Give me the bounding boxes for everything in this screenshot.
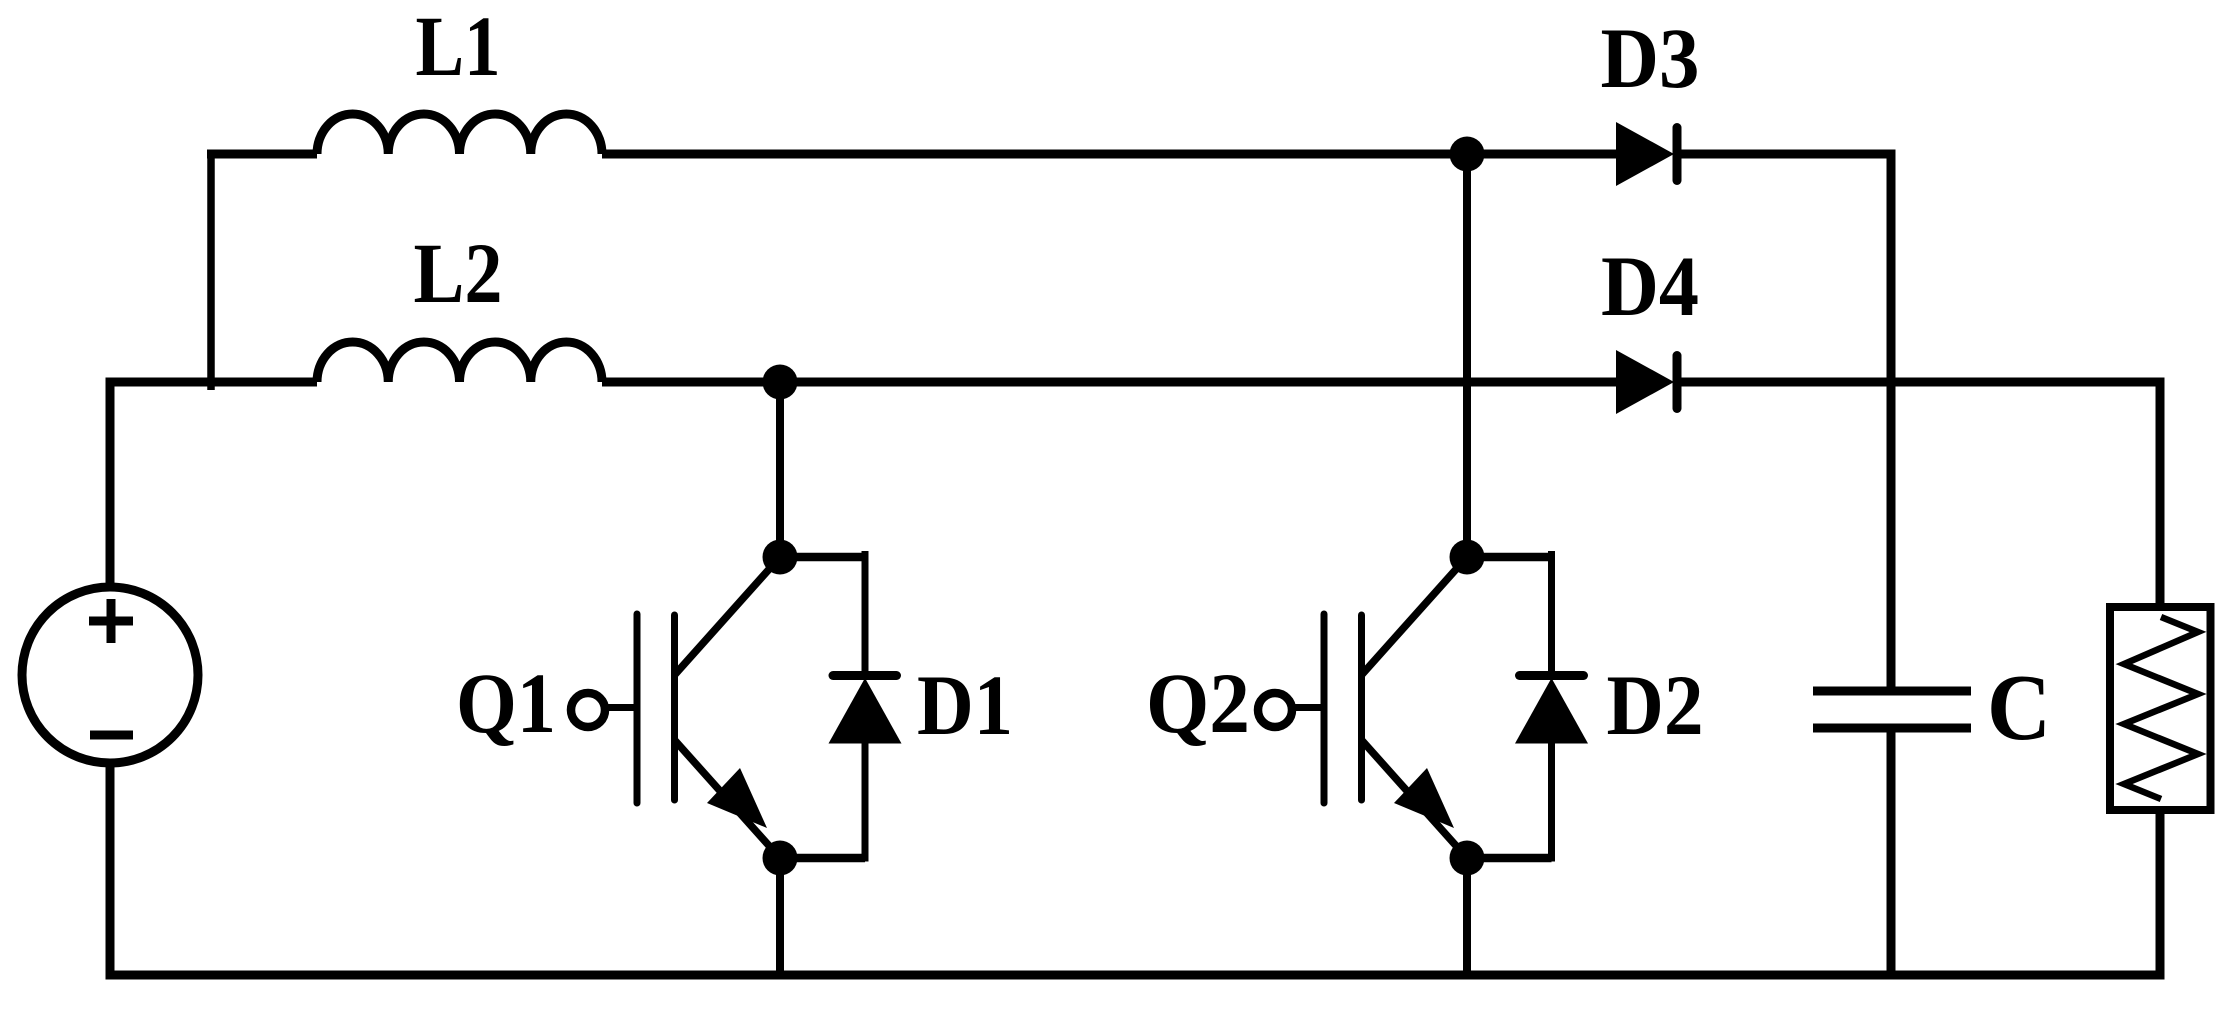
wire: D1 anode down to Q1 emitter — [862, 740, 869, 862]
transistor Q1 gate circle — [571, 693, 605, 727]
load resistor box — [2110, 607, 2211, 810]
wire: source positive lead up-left vertical and L2 feed — [110, 382, 317, 591]
diode D2 triangle — [1515, 678, 1588, 744]
wire: L2 to diode D4 — [602, 378, 1617, 387]
transistor Q1 gate lead — [605, 704, 637, 711]
transistor Q2 gate bar — [1321, 614, 1328, 803]
svg-text:D4: D4 — [1601, 238, 1699, 334]
wire: L1 to diode D3 — [602, 150, 1617, 159]
svg-text:Q1: Q1 — [456, 655, 556, 751]
wire: Q2 emitter down to rail — [1463, 858, 1471, 975]
wire: Q1 collector jog to D1 — [780, 553, 865, 562]
diode D4 triangle — [1616, 350, 1674, 414]
load resistor zigzag — [2124, 617, 2198, 799]
node A junction dot (L1 / Q2 / D3) — [1450, 137, 1485, 172]
transistor Q1 emitter diagonal — [675, 740, 781, 858]
wire: Q2 collector jog to D2 — [1467, 553, 1552, 562]
wire: source negative lead down — [106, 760, 115, 980]
svg-text:L1: L1 — [416, 0, 501, 94]
transistor Q2 gate circle — [1258, 693, 1292, 727]
transistor Q2: collector junction dot — [1450, 540, 1485, 575]
capacitor C bottom plate — [1813, 724, 1971, 733]
wire: node A down to Q2 collector — [1463, 154, 1471, 557]
transistor Q2 collector diagonal — [1362, 557, 1468, 675]
transistor Q1: collector junction dot — [763, 540, 798, 575]
transistor Q2: emitter junction dot — [1450, 841, 1485, 876]
svg-text:Q2: Q2 — [1146, 655, 1250, 751]
svg-text:L2: L2 — [414, 225, 503, 321]
voltage source minus sign — [90, 731, 133, 740]
wire: D4 to load corner — [1674, 382, 2160, 603]
transistor Q1 body bar — [671, 615, 678, 800]
voltage source V circle — [22, 587, 198, 763]
wire: node B down to Q1 collector — [776, 382, 784, 557]
transistor Q2 body bar — [1358, 615, 1365, 800]
svg-text:C: C — [1987, 656, 2051, 760]
inductor L2 — [317, 342, 602, 382]
transistor Q1: emitter junction dot — [763, 841, 798, 876]
diode D3 cathode bar — [1673, 128, 1682, 181]
wire: load bottom lead — [2156, 814, 2165, 980]
wire: left branch vertical to L1 — [207, 154, 215, 390]
svg-text:D1: D1 — [917, 657, 1013, 753]
wire: D2 anode down to Q2 emitter — [1548, 740, 1555, 862]
capacitor C top plate — [1813, 687, 1971, 696]
wire: D3 to output corner, down to capacitor — [1674, 154, 1891, 689]
inductor L1 — [317, 114, 602, 154]
diode D4 cathode bar — [1673, 356, 1682, 409]
diode D1 cathode bar — [833, 671, 897, 680]
voltage source plus sign — [89, 599, 133, 643]
transistor Q1 collector diagonal — [675, 557, 781, 675]
transistor Q2 emitter arrow — [1394, 768, 1454, 828]
svg-text:D2: D2 — [1607, 657, 1704, 753]
transistor Q2 emitter diagonal — [1362, 740, 1468, 858]
node B junction dot (L2 / Q1) — [763, 365, 798, 400]
diode D3 triangle — [1616, 122, 1674, 186]
wire: capacitor bottom lead — [1887, 728, 1896, 975]
diode D2 cathode bar — [1520, 671, 1584, 680]
transistor Q2 gate lead — [1292, 704, 1324, 711]
wire: Q1 emitter down to rail — [776, 858, 784, 975]
transistor Q1 emitter arrow — [707, 768, 767, 828]
svg-text:D3: D3 — [1601, 10, 1700, 106]
transistor Q1 gate bar — [634, 614, 641, 803]
wire: bottom return rail — [110, 971, 2165, 980]
diode D1 triangle — [829, 678, 902, 744]
